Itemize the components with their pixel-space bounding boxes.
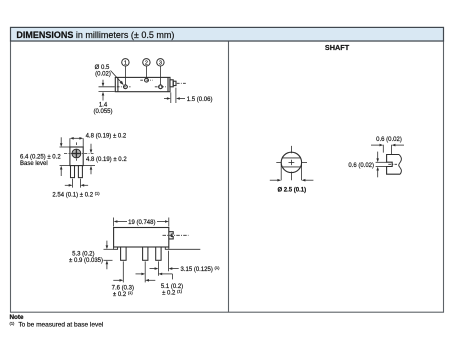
slot chord top [282,157,300,159]
dimension 0.6 left extension lines [376,162,387,166]
front leg 3 [156,247,161,260]
label 5.1 [161,284,183,297]
dimension 0.6 top extension lines [383,145,391,155]
dimension 3.15 arrows [150,267,179,270]
shaft slot centerline [388,163,397,165]
dimension 5.3 arrows [106,241,109,270]
dimension 19 extension lines [114,218,169,227]
balloon leader 1 [124,66,126,85]
front leg 1 [121,247,127,260]
label 4.8 right [86,157,127,163]
SHAFT panel title [325,43,350,52]
panel divider [228,41,230,312]
svg-text:3.15 (0.125) (1): 3.15 (0.125) (1) [181,265,221,273]
balloon 2 [143,59,150,67]
shaft break line [399,155,402,175]
front shaft end detail [169,232,173,239]
svg-text:2: 2 [145,60,148,66]
leg1 center extension [122,261,124,282]
dimension 5.1 arrows [136,273,173,280]
front view right standoff tab [165,247,169,249]
balloon 3 [157,59,164,67]
label 1.4 (0.055) [93,103,112,116]
label 1.5 (0.06) [187,97,213,103]
screw top tangent line [60,146,70,148]
balloon leader 3 [160,66,162,85]
dimension 1.4 extension lines [99,87,115,92]
dia 2.5 extension lines [281,164,301,181]
balloon 1 [122,59,129,67]
label 19 (0.748) [128,220,155,226]
dimension 1.5 extension lines [171,88,176,103]
svg-text:SHAFT: SHAFT [325,43,350,52]
label 3.15 [181,265,221,273]
header bar DIMENSIONS [11,27,444,41]
top view stub centerline [177,82,186,84]
top view body [115,77,170,91]
front view body [114,228,169,248]
label 0.6 left [348,163,374,169]
svg-text:19 (0.748): 19 (0.748) [128,220,155,226]
shaft center extension [168,251,170,272]
side view square body [70,147,83,166]
shaft side outline [387,155,401,175]
slot chord bottom [282,166,300,168]
side view leg right [78,166,82,178]
dimension 2.54 extension lines [73,179,81,188]
terminal pin 2 [145,78,149,82]
leader dia 0.5 [111,71,124,86]
svg-text:(0.02): (0.02) [95,72,111,78]
note text [10,320,104,328]
dia 2.5 arrows [270,179,314,182]
svg-text:0.6 (0.02): 0.6 (0.02) [348,163,374,169]
centerline pins 1-3 [117,86,167,88]
svg-text:2.54 (0.1) ± 0.2 (1): 2.54 (0.1) ± 0.2 (1) [52,190,100,198]
label 5.3 [69,251,103,264]
note title [10,314,24,321]
dimension 4.8 right arrows [90,144,93,174]
screw centerline [64,142,94,161]
svg-text:± 0.9 (0.035): ± 0.9 (0.035) [69,258,103,264]
dimension 1.5 arrows [164,97,185,100]
label dia 0.5 [95,65,111,78]
svg-text:Ø 2.5 (0.1): Ø 2.5 (0.1) [277,188,306,194]
svg-text:1.4: 1.4 [99,103,108,109]
svg-text:4.8 (0.19) ± 0.2: 4.8 (0.19) ± 0.2 [86,134,127,140]
dimension 4.8 top line [70,137,83,147]
svg-text:DIMENSIONS in millimeters (± 0: DIMENSIONS in millimeters (± 0.5 mm) [16,30,174,40]
dimension 1.4 arrows [102,80,105,101]
svg-text:4.8 (0.19) ± 0.2: 4.8 (0.19) ± 0.2 [86,157,127,163]
label 4.8 top [86,134,127,140]
front shaft centerline [163,234,189,236]
front view left standoff tab [114,247,118,249]
dimension 7.6 arrows [113,279,155,282]
label dia 2.5 [277,188,306,194]
top view shaft stub [170,80,176,87]
svg-text:6.4 (0.25) ± 0.2: 6.4 (0.25) ± 0.2 [20,154,61,160]
svg-text:3: 3 [159,60,162,66]
terminal pin 3 [159,85,163,89]
svg-text:Ø 0.5: Ø 0.5 [95,65,110,71]
terminal pin 1 [124,85,128,89]
vertical centerline [290,146,292,180]
leg2 center extension [144,261,146,282]
svg-text:(1)To be measured at base leve: (1)To be measured at base level [10,320,104,328]
leg3 center extension [157,261,159,275]
label 7.6 [112,286,134,299]
dimension 0.6 left arrows [376,152,379,178]
label 2.54 [52,190,100,198]
centerline pin 2 [140,79,153,81]
dimension 6.4 arrows [60,137,63,176]
leg bottom reference line [104,259,113,261]
svg-text:5.3 (0.2): 5.3 (0.2) [72,251,94,257]
label 0.6 top [376,137,402,143]
dimension 19 arrows [114,220,169,223]
balloon leader 2 [146,66,148,78]
adjustment screw [72,149,81,158]
dimension 0.6 top arrows [371,144,404,147]
dimension 2.54 arrows [65,184,88,187]
svg-text:0.6 (0.02): 0.6 (0.02) [376,137,402,143]
svg-text:1: 1 [124,60,127,66]
base level line right [169,248,201,250]
base level line left [104,248,114,250]
label 6.4 base level [20,154,61,167]
svg-text:1.5 (0.06): 1.5 (0.06) [187,97,213,103]
side view leg left [71,166,75,178]
svg-text:Base level: Base level [20,161,48,167]
side view bottom edge extended [60,165,96,167]
svg-text:(0.055): (0.055) [93,109,112,115]
front leg 2 [143,247,148,260]
outer box [11,41,444,312]
horizontal centerline [276,161,307,163]
shaft face circle [281,152,301,172]
